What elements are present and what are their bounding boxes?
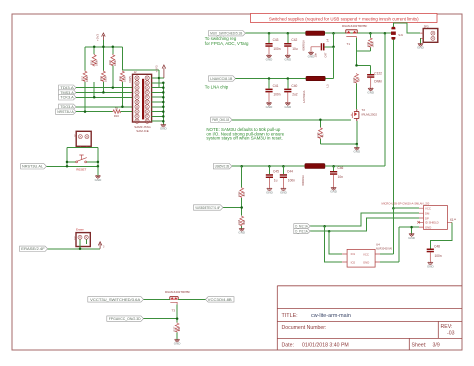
- +3V3 arrow at erase: [98, 242, 105, 249]
- capacitor C41 100n: [265, 79, 280, 109]
- svg-text:R19: R19: [99, 76, 103, 81]
- jumper 3P3 box: [420, 24, 438, 42]
- svg-text:DP: DP: [425, 216, 429, 220]
- svg-text:for FPGA, ADC, VTarg: for FPGA, ADC, VTarg: [205, 41, 249, 46]
- net label PWR_ON/1.1B: [211, 117, 232, 122]
- svg-text:X1**: X1**: [450, 218, 457, 222]
- capacitor C45 1u: [266, 166, 279, 194]
- svg-text:10n: 10n: [314, 53, 318, 58]
- svg-text:TDI3.A: TDI3.A: [60, 86, 74, 90]
- svg-text:R29: R29: [352, 77, 356, 82]
- svg-text:100k: 100k: [85, 76, 89, 82]
- svg-text:ERASE/2.4F: ERASE/2.4F: [21, 247, 45, 251]
- resistor R17: [80, 71, 89, 83]
- svg-text:C43: C43: [273, 38, 279, 42]
- svg-text:C45: C45: [273, 170, 279, 174]
- svg-text:T3: T3: [172, 309, 176, 313]
- wire R29 to T2: [356, 84, 358, 109]
- svg-text:L3: L3: [326, 84, 330, 87]
- svg-text:MICRO-USB-SP-CN620-A-SMLAN_J20: MICRO-USB-SP-CN620-A-SMLAN_J20: [382, 201, 430, 205]
- inductor L4 600R/1A: [302, 31, 330, 51]
- capacitor C46 10n: [330, 166, 343, 194]
- wire SJ1 top to 3P3 pad: [393, 23, 420, 33]
- svg-text:USB5V/2.2B: USB5V/2.2B: [215, 165, 230, 169]
- svg-text:ID SHIELD: ID SHIELD: [425, 221, 439, 225]
- wire D_P branch to U4 IO1: [329, 231, 342, 254]
- svg-text:10n: 10n: [338, 175, 344, 179]
- svg-text:100k: 100k: [113, 60, 117, 66]
- svg-text:R31: R31: [366, 41, 370, 46]
- unconnected ID pin mark: [417, 221, 420, 224]
- svg-text:VCC: VCC: [363, 252, 369, 256]
- wire resistor bottoms to jtag rows: [85, 66, 122, 112]
- resistor R21: [118, 71, 127, 83]
- net label MUX_SWITCHED/5.1B: [209, 31, 246, 36]
- resistor R34 68k: [237, 216, 246, 227]
- ground T2: [353, 144, 361, 154]
- svg-text:PWR_ON/1.1B: PWR_ON/1.1B: [212, 118, 229, 122]
- svg-text:SAMR: SAMR: [128, 76, 131, 83]
- svg-text:01/01/2018 3:40 PM: 01/01/2018 3:40 PM: [302, 343, 349, 349]
- IC U4 NUF2042XV6 box: [347, 249, 375, 267]
- junction dots reset: [66, 161, 99, 168]
- svg-text:R16: R16: [114, 114, 119, 118]
- svg-text:1A/700mA: 1A/700mA: [302, 90, 306, 103]
- svg-text:+3V3: +3V3: [155, 65, 159, 72]
- svg-text:R30: R30: [316, 132, 320, 137]
- svg-text:D_N/2.1A: D_N/2.1A: [295, 225, 308, 229]
- wire usb GND: [399, 227, 419, 262]
- svg-text:GND: GND: [363, 260, 369, 264]
- U4 pin names: [351, 252, 370, 264]
- svg-text:VCCT3U_SWITCHED/3.6A: VCCT3U_SWITCHED/3.6A: [90, 298, 141, 302]
- net label D_P/2.1A: [294, 229, 310, 234]
- +3V3 supply arrow (top of pull-up bus): [95, 33, 105, 41]
- transistor T2 IRLML2502: [351, 108, 378, 121]
- wire FPGAVCC row: [144, 319, 178, 323]
- jtag pin pads right column: [145, 76, 149, 123]
- resistor R18: [90, 54, 99, 66]
- wire jtag right gnd column: [152, 78, 164, 125]
- svg-text:39: 39: [115, 106, 118, 110]
- svg-text:DM: DM: [425, 212, 430, 216]
- wire reset button loop: [46, 147, 98, 166]
- ground usb: [408, 233, 416, 240]
- svg-text:1u: 1u: [274, 178, 278, 182]
- net label TDO3.A: [59, 104, 76, 109]
- svg-text:10k: 10k: [177, 327, 181, 332]
- wire T2 source to gnd: [320, 121, 356, 144]
- svg-text:IRLML6402TRPBF: IRLML6402TRPBF: [342, 24, 368, 28]
- svg-text:R33: R33: [237, 191, 241, 196]
- wire SJ1 bottom down (VBUS to USB): [392, 40, 394, 209]
- capacitor C44 100n: [280, 166, 295, 194]
- resistor R33 47k: [237, 187, 246, 198]
- svg-text:IRLML6402TRPBF: IRLML6402TRPBF: [165, 290, 191, 294]
- ground R34: [238, 228, 246, 235]
- title block: [277, 286, 462, 350]
- inductor L3 1A/700mA: [302, 76, 330, 103]
- usb connector X1 box: [424, 206, 448, 230]
- svg-text:SAM-ICE: SAM-ICE: [136, 129, 149, 133]
- svg-text:Document Number:: Document Number:: [282, 325, 327, 331]
- net label LNAVCC/8.1B: [209, 76, 236, 81]
- solder jumper SJ1: [391, 27, 403, 40]
- net label NRST3U.AL: [21, 164, 47, 169]
- junction dot VBUS at usb VCC: [392, 207, 395, 210]
- svg-text:TMS3.A: TMS3.A: [60, 91, 74, 95]
- capacitor C48 100n: [427, 245, 442, 269]
- svg-text:R27: R27: [173, 326, 177, 331]
- junction bus dots: [93, 46, 114, 49]
- connector J1 SAM3 JTAG box: [133, 74, 152, 122]
- net label TCK3.A: [59, 95, 76, 100]
- net label VCCT3U_SWITCHED/3.6A: [88, 297, 144, 302]
- net label TDI3.A: [59, 85, 76, 90]
- svg-text:100n: 100n: [273, 93, 280, 97]
- svg-text:IO1: IO1: [351, 252, 356, 256]
- svg-text:cw-lite-arm-main: cw-lite-arm-main: [311, 313, 351, 319]
- svg-text:R20: R20: [108, 60, 112, 65]
- wire T3 row: [144, 299, 206, 318]
- svg-text:3P3: 3P3: [424, 24, 429, 28]
- junction dots D_N D_P: [323, 225, 330, 233]
- wire switched node down to L3: [325, 47, 333, 79]
- svg-text:C122: C122: [374, 71, 382, 75]
- svg-text:+3V3: +3V3: [95, 34, 99, 41]
- wire supply row 2: [236, 78, 307, 80]
- svg-text:100n: 100n: [435, 254, 442, 258]
- svg-text:100k: 100k: [123, 76, 127, 82]
- wire U4 GND: [380, 261, 399, 263]
- svg-text:TITLE:: TITLE:: [282, 313, 298, 319]
- wire R33 divider column: [223, 166, 242, 228]
- wire usb DP to D_P: [310, 218, 419, 231]
- net label VCC3O/4.8B (points left): [206, 297, 235, 302]
- svg-text:-03: -03: [447, 331, 455, 337]
- wire supply row 1: [245, 32, 391, 34]
- svg-text:10u: 10u: [292, 47, 298, 51]
- svg-text:NUF2042XV6: NUF2042XV6: [376, 246, 393, 250]
- svg-text:4k7: 4k7: [321, 133, 325, 138]
- capacitor C43 100n: [265, 33, 280, 61]
- wire T1 gate / R31: [357, 38, 371, 65]
- net label USB5V/2.2B: [213, 164, 232, 169]
- capacitor C47 10n (horizontal): [308, 33, 334, 58]
- wire D_N branch to U4 IO2: [325, 226, 343, 262]
- svg-text:2u2: 2u2: [292, 93, 298, 97]
- erase jumper box: [73, 233, 90, 249]
- svg-text:RESET: RESET: [76, 168, 86, 172]
- resistor R16 (series, 39): [112, 106, 120, 118]
- inductor L5 600R/1A: [301, 164, 325, 186]
- svg-text:C41: C41: [273, 84, 279, 88]
- svg-text:L4: L4: [325, 39, 329, 42]
- svg-text:Switched supplies (required fo: Switched supplies (required for USB susp…: [269, 16, 419, 21]
- svg-text:100n: 100n: [273, 47, 280, 51]
- +3V3 arrow at jtag pin 2: [155, 65, 166, 78]
- net label VUSBDETECT/1.4F: [194, 205, 224, 210]
- wire R30 bottom: [319, 139, 321, 144]
- svg-text:100k: 100k: [94, 60, 98, 66]
- svg-text:C46: C46: [337, 166, 343, 170]
- svg-text:LNAVCC/8.1B: LNAVCC/8.1B: [210, 77, 233, 81]
- resistor R19: [99, 71, 108, 83]
- svg-text:FPGAVCC_ON/2.3D: FPGAVCC_ON/2.3D: [109, 317, 141, 321]
- ground reset: [95, 166, 103, 182]
- svg-text:NRST3U.AL: NRST3U.AL: [22, 165, 43, 169]
- svg-text:600R/1A: 600R/1A: [302, 40, 306, 51]
- jtag pin pads left column: [135, 76, 139, 123]
- jtag center key bar: [142, 79, 144, 120]
- capacitor C40 2u2: [284, 79, 298, 109]
- ground 3P3: [417, 38, 425, 49]
- net label D_N/2.1A: [294, 224, 310, 229]
- wire +3V3 pull-up bus: [85, 40, 159, 88]
- net label ERASE/2.4F: [20, 246, 48, 251]
- svg-text:VUSBDETECT/1.4F: VUSBDETECT/1.4F: [195, 206, 221, 210]
- svg-text:SJ2: SJ2: [73, 236, 76, 241]
- svg-text:C48: C48: [434, 245, 440, 249]
- svg-text:100k: 100k: [371, 41, 375, 47]
- wires jtag signal rows: [76, 88, 133, 112]
- resistor R30 4k7: [316, 127, 325, 139]
- svg-text:C42: C42: [291, 38, 297, 42]
- wire PWR_ON row to T2 gate: [232, 120, 351, 127]
- svg-text:Sheet:: Sheet:: [412, 343, 427, 349]
- svg-text:T1: T1: [347, 42, 351, 46]
- resistor R20: [108, 54, 117, 66]
- wire erase to +3V3: [48, 248, 101, 250]
- switch S2 symbol: [76, 155, 87, 163]
- svg-text:GND: GND: [425, 226, 431, 230]
- svg-text:VCC: VCC: [425, 207, 431, 211]
- net label FPGAVCC_ON/2.3D: [107, 316, 144, 321]
- wire supply row 3: [232, 165, 385, 167]
- wire row3 up to row1 (VBUS raw): [384, 33, 386, 166]
- svg-text:U4: U4: [376, 243, 380, 247]
- ground jtag right column: [160, 124, 168, 131]
- svg-text:R34: R34: [237, 219, 241, 224]
- svg-text:47k: 47k: [242, 192, 246, 197]
- svg-text:3/9: 3/9: [433, 343, 440, 349]
- wire usb VCC: [393, 207, 418, 209]
- svg-text:REV:: REV:: [441, 324, 453, 330]
- ground R27: [174, 333, 182, 346]
- svg-text:TDO3.A: TDO3.A: [60, 105, 74, 109]
- note: switched supplies warning box: [251, 14, 438, 23]
- wire usb DM to D_N: [310, 213, 419, 226]
- svg-text:MUX_SWITCHED/5.1B: MUX_SWITCHED/5.1B: [210, 32, 243, 36]
- usb pin stubs: [419, 208, 452, 227]
- svg-text:IRLML2502: IRLML2502: [362, 112, 378, 116]
- svg-text:system stays off when SAM3U in: system stays off when SAM3U in reset.: [206, 136, 282, 141]
- svg-text:100k: 100k: [104, 76, 108, 82]
- wire U4 VCC to VBUS: [380, 208, 393, 254]
- capacitor C42 10u: [284, 33, 298, 61]
- svg-text:100n: 100n: [288, 178, 295, 182]
- usb pin names: [425, 207, 439, 230]
- svg-text:Erase: Erase: [76, 228, 84, 232]
- svg-text:VCC3O/4.8B: VCC3O/4.8B: [208, 298, 233, 302]
- junction dots jtag rows: [84, 86, 124, 113]
- svg-text:To LNA chip: To LNA chip: [205, 84, 229, 89]
- pushbutton S2 footprint box: [74, 131, 92, 147]
- resistor R29 1k: [352, 73, 361, 83]
- svg-text:DNM: DNM: [374, 79, 382, 83]
- svg-text:Date:: Date:: [282, 343, 294, 349]
- svg-text:R17: R17: [80, 76, 84, 81]
- svg-text:SJ1: SJ1: [398, 33, 403, 37]
- svg-text:C47: C47: [324, 52, 328, 57]
- capacitor C122 DNM: [357, 65, 383, 94]
- svg-text:TCK3.A: TCK3.A: [60, 96, 74, 100]
- net label TMS3.A: [59, 90, 76, 95]
- svg-text:NRST3U.A: NRST3U.A: [57, 110, 74, 114]
- svg-text:D_P/2.1A: D_P/2.1A: [295, 230, 308, 234]
- U4 pin stubs: [342, 254, 380, 262]
- svg-text:600R/1A: 600R/1A: [301, 175, 305, 186]
- svg-text:R18: R18: [90, 60, 94, 65]
- net label NRST3U.A: [56, 109, 77, 114]
- svg-text:C44: C44: [287, 170, 293, 174]
- svg-text:IO2: IO2: [351, 260, 356, 264]
- wire usb shield to C48: [430, 222, 452, 248]
- svg-text:R21: R21: [118, 76, 122, 81]
- svg-text:68k: 68k: [242, 220, 246, 225]
- resistor R27 10k: [173, 323, 182, 333]
- resistor R31 100k: [366, 33, 375, 48]
- svg-text:C40: C40: [291, 84, 297, 88]
